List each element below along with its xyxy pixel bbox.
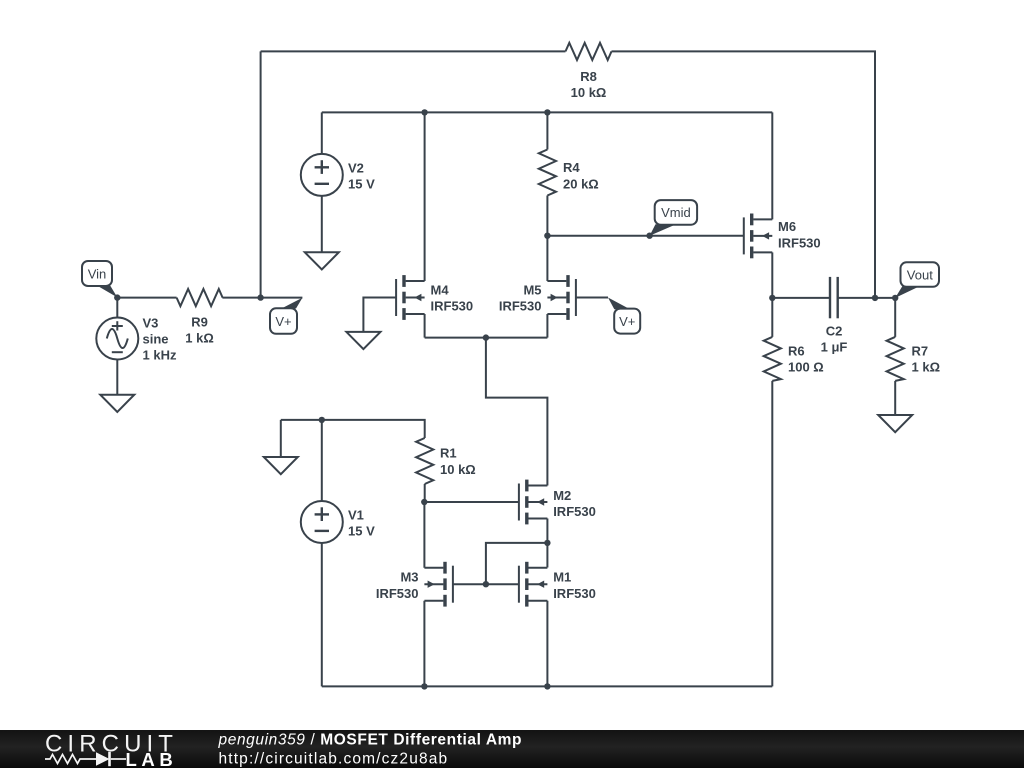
svg-text:R6: R6 [788, 344, 805, 359]
resistor R9 [177, 289, 223, 306]
label R1 value [440, 446, 476, 477]
wire rail to R4 [546, 112, 548, 149]
svg-text:1 kΩ: 1 kΩ [912, 360, 941, 375]
label M1 value [553, 570, 596, 601]
wire Vout node to R6 [771, 298, 773, 337]
label M4 value [431, 283, 474, 314]
resistor R4 [539, 150, 556, 196]
svg-text:R1: R1 [440, 446, 457, 461]
svg-text:penguin359 / MOSFET Differenti: penguin359 / MOSFET Differential Amp [218, 732, 523, 749]
wire R1 bottom lead [424, 484, 426, 502]
transistor M3 [424, 562, 453, 607]
svg-text:1 kHz: 1 kHz [143, 348, 177, 363]
svg-text:IRF530: IRF530 [553, 504, 596, 519]
wire left end down to ground [280, 420, 282, 457]
svg-text:IRF530: IRF530 [499, 299, 542, 314]
ground below V3 [100, 395, 134, 412]
footer url text [219, 751, 449, 768]
wire M5 gate to V+ flag [576, 297, 608, 299]
svg-text:R7: R7 [912, 344, 929, 359]
wire R4 to Vmid node [546, 196, 548, 236]
footer bar [0, 730, 1024, 768]
svg-text:C2: C2 [826, 323, 843, 338]
node M1-M3 gate junction [483, 581, 489, 587]
svg-text:Vmid: Vmid [661, 205, 691, 220]
svg-text:M5: M5 [523, 283, 541, 298]
wire M2 source to M1 drain [546, 519, 548, 568]
svg-text:M2: M2 [553, 488, 571, 503]
wire top rail right of R8 down to Vout [612, 51, 876, 298]
wire M3 drain lead [423, 502, 425, 568]
transistor M4 [396, 275, 425, 320]
ground at M4 gate [346, 332, 380, 349]
svg-text:V2: V2 [348, 160, 364, 175]
ground left of V1 [264, 457, 298, 474]
wire M2 gate node [424, 501, 519, 503]
svg-text:10 kΩ: 10 kΩ [571, 85, 607, 100]
svg-text:V+: V+ [275, 314, 291, 329]
svg-text:R9: R9 [191, 315, 208, 330]
wire M3 gate lead [453, 583, 486, 585]
label M5 value [499, 283, 542, 314]
svg-text:R8: R8 [580, 69, 597, 84]
wire rail to M6 drain [771, 112, 773, 219]
wire top rail left of R8 [261, 50, 566, 52]
svg-text:http://circuitlab.com/cz2u8ab: http://circuitlab.com/cz2u8ab [219, 751, 449, 768]
svg-text:100 Ω: 100 Ω [788, 360, 824, 375]
wire bottom rail [322, 685, 773, 687]
node Vmid at R4 [544, 233, 550, 239]
wire V1 bottom to bottom rail [321, 543, 323, 686]
voltage source V2 [301, 154, 343, 196]
wire Vmid node to M6 gate [547, 235, 744, 237]
resistor R7 [887, 337, 904, 381]
resistor R8 [566, 43, 612, 60]
wire M6 source lead [771, 252, 773, 298]
wire M4 gate to ground [363, 298, 396, 332]
svg-text:10 kΩ: 10 kΩ [440, 462, 476, 477]
ground below V2 [305, 252, 339, 269]
node Vin junction [114, 294, 120, 300]
wire gnd-flag rail to R1 [281, 420, 425, 438]
node rail-R4 junction [544, 109, 550, 115]
svg-text:Vout: Vout [907, 267, 933, 282]
label R7 value [912, 344, 941, 375]
voltage source V3 sine [96, 318, 138, 360]
label C2 value [821, 323, 848, 354]
node V+ wire junction [257, 294, 263, 300]
wire Vout to R7 [894, 298, 896, 337]
footer title text [218, 732, 523, 749]
label M6 value [778, 219, 821, 250]
wire gate node to M1 [486, 583, 519, 585]
wire C2 to Vout node [838, 297, 896, 299]
svg-text:Vin: Vin [88, 266, 107, 281]
node tail junction [483, 334, 489, 340]
wire V1 top lead [321, 420, 323, 501]
transistor M1 [519, 562, 548, 607]
wire Vmid node to M5 drain [546, 236, 548, 281]
label V1 value [348, 508, 375, 539]
flag V+ at M5 gate [608, 298, 640, 334]
CircuitLab logo [45, 731, 178, 768]
wire rail to M4 drain [424, 112, 426, 281]
svg-text:M3: M3 [400, 570, 418, 585]
svg-text:V+: V+ [619, 314, 635, 329]
voltage source V1 [301, 501, 343, 543]
svg-text:LAB: LAB [126, 749, 178, 768]
node R1-M3-M2 junction [421, 499, 427, 505]
wire V3 bottom lead [116, 360, 118, 395]
label V2 value [348, 160, 375, 191]
resistor R6 [764, 337, 781, 381]
svg-text:IRF530: IRF530 [553, 586, 596, 601]
wire M6 source to C2 [772, 297, 830, 299]
wire Vin to R9 [117, 297, 176, 299]
svg-text:20 kΩ: 20 kΩ [563, 176, 599, 191]
wire R7 to ground [894, 381, 896, 415]
ground below R7 [878, 415, 912, 432]
label R8 value [571, 69, 607, 100]
transistor M6 [744, 214, 773, 259]
wire M3 source lead [423, 601, 425, 687]
wire tail rail [425, 337, 548, 339]
label R6 value [788, 344, 824, 375]
node feedback-Vout junction [872, 295, 878, 301]
node Vout [892, 295, 898, 301]
wire Vin node to V3 [116, 298, 118, 318]
svg-text:V1: V1 [348, 508, 364, 523]
node bottom rail M3 [421, 683, 427, 689]
flag Vout [895, 262, 939, 298]
resistor R1 [416, 438, 433, 484]
node bottom rail M1 [544, 683, 550, 689]
label R4 value [563, 160, 599, 191]
node rail-M4 junction [421, 109, 427, 115]
label R9 value [185, 315, 214, 346]
node V1 top junction [319, 417, 325, 423]
capacitor C2 [830, 277, 838, 318]
wire R6 bottom lead [771, 381, 773, 687]
svg-text:M4: M4 [431, 283, 450, 298]
wire M4 source lead [424, 314, 426, 338]
svg-text:sine: sine [143, 332, 169, 347]
svg-text:V3: V3 [143, 316, 159, 331]
transistor M2 [519, 480, 548, 525]
svg-text:IRF530: IRF530 [431, 299, 474, 314]
svg-text:M6: M6 [778, 219, 796, 234]
svg-text:15 V: 15 V [348, 177, 375, 192]
wire V2 bottom lead [321, 196, 323, 252]
flag Vin [82, 261, 117, 297]
svg-text:IRF530: IRF530 [778, 235, 821, 250]
svg-text:R4: R4 [563, 160, 580, 175]
flag V+ near R9 [270, 298, 302, 334]
wire V2 top lead [321, 112, 323, 154]
node M6 source junction [769, 295, 775, 301]
svg-text:1 μF: 1 μF [821, 340, 848, 355]
wire R9 to V+ junction [222, 297, 302, 299]
wire V+ supply rail [322, 111, 773, 113]
svg-text:1 kΩ: 1 kΩ [185, 331, 214, 346]
node mirror branch junction [544, 540, 550, 546]
wire mirror branch to gates [486, 543, 548, 584]
svg-text:IRF530: IRF530 [376, 586, 419, 601]
wire M5 source lead [546, 314, 548, 338]
label M2 value [553, 488, 596, 519]
svg-text:M1: M1 [553, 570, 571, 585]
wire left vertical to top rail [260, 51, 262, 297]
label M3 value [376, 570, 419, 601]
wire M1 source lead [546, 601, 548, 687]
wire tail down to M2 drain [486, 338, 548, 486]
svg-text:15 V: 15 V [348, 524, 375, 539]
transistor M5 [547, 275, 576, 320]
node Vmid label point [646, 233, 652, 239]
label V3 value [143, 316, 177, 363]
flag Vmid [650, 200, 698, 236]
